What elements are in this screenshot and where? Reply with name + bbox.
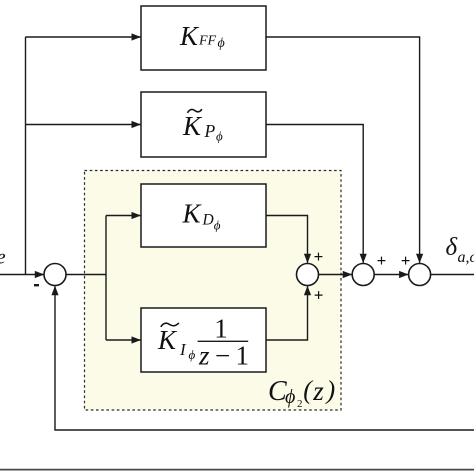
label output delta_a,c [446,234,474,266]
arrowhead into S3 [343,271,353,278]
arrowhead into S4 [399,271,409,278]
svg-text:P: P [204,121,216,141]
bottom rule [0,469,474,471]
wire input e to summing junction S1 [0,274,44,276]
label integrator fraction 1/(z-1) [198,314,249,371]
wire to KD block [106,215,141,217]
arrowhead into KI [132,336,142,343]
svg-text:FF: FF [198,34,217,49]
wire S3 to S4 [374,274,408,276]
wire to KFF block [26,36,142,38]
svg-text:2: 2 [297,398,303,410]
wire S2 to S3 [319,274,352,276]
arrowhead into S2 bottom [304,286,311,296]
svg-text:−: − [215,341,230,371]
label Ktilde_P_phi [182,109,223,143]
label K_FF_phi [179,21,225,51]
svg-text:K: K [157,325,178,355]
arrowhead into S1 [35,271,45,278]
label C_phi2(z) [268,376,335,411]
svg-text:ϕ: ϕ [214,217,221,232]
summing junction S1 [44,264,66,286]
arrowhead into S1 bottom [51,286,58,296]
svg-text:K: K [182,199,203,229]
wire KI output up to S2 [266,286,308,340]
arrowhead into S3 top [360,254,367,264]
svg-text:ϕ: ϕ [285,386,295,408]
node branch at x=25.5 [25,37,27,275]
block KP [141,92,266,157]
arrowhead into KP [132,121,142,128]
wire KP output down to S3 [266,125,363,263]
wire feedback from right edge to S1 [55,286,474,430]
svg-text:+: + [377,251,387,270]
svg-text:e: e [0,246,6,268]
svg-text:D: D [202,212,214,229]
svg-text:): ) [325,376,336,405]
block KFF [141,6,266,70]
wire KD output down to S2 [266,216,308,263]
summing junction S4 [409,264,431,286]
svg-text:δ: δ [446,234,458,261]
svg-text:+: + [314,286,324,305]
label Ktilde_I_phi [157,323,196,362]
summing junction S3 [352,264,374,286]
wire to KI block [106,339,141,341]
wire to KP block [26,124,142,126]
svg-text:+: + [314,247,324,266]
label K_D_phi [182,199,221,233]
arrowhead into KD [132,212,142,219]
arrowhead into S2 top [304,254,311,264]
svg-text:1: 1 [236,341,250,371]
svg-text:1: 1 [214,314,228,344]
svg-text:z: z [198,341,210,371]
block KI with integrator [141,308,266,372]
wire S4 output to right edge [431,274,474,276]
wire S1 output to branch [66,274,106,276]
svg-text:K: K [182,111,203,141]
dashed controller box C_phi2(z) [85,171,342,411]
arrowhead into S4 top [416,254,423,264]
svg-text:K: K [179,21,200,51]
block KD [141,184,266,247]
arrowhead into KFF [132,33,142,40]
summing junction S2 [297,264,319,286]
svg-text:z: z [312,376,324,406]
minus sign at S1 [34,284,39,286]
svg-text:ϕ: ϕ [189,347,196,362]
wire KFF output down to S4 [266,37,420,263]
svg-text:ϕ: ϕ [218,36,225,51]
node branch at x=106 [105,216,107,341]
svg-text:(: ( [303,376,313,405]
svg-text:+: + [401,251,411,270]
svg-text:a,c: a,c [458,249,474,266]
svg-text:ϕ: ϕ [216,129,223,144]
